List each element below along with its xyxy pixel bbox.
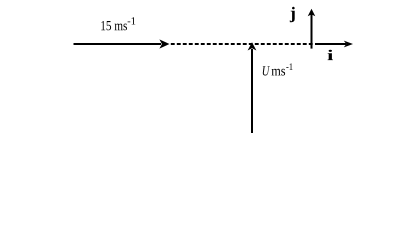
superscript "-1" of U ms label — [286, 63, 292, 70]
wire: vertical shaft of velocity vector U — [251, 49, 253, 133]
arrowhead of unit vector j — [308, 9, 316, 16]
value label "15 ms" — [101, 21, 127, 30]
axis label i (bold) — [328, 50, 333, 60]
value label "U ms" (U italic) — [263, 66, 270, 75]
superscript "-1" of 15 ms label — [128, 17, 136, 24]
wire: shaft of unit vector j (vertical axis) — [311, 14, 313, 49]
axis label j (bold) — [290, 7, 295, 22]
wire: shaft of unit vector i (horizontal axis) — [315, 43, 346, 45]
arrowhead of horizontal velocity vector — [159, 39, 169, 48]
arrowhead of unit vector i — [344, 41, 353, 48]
wire: solid shaft of horizontal velocity vector — [74, 43, 162, 45]
wire: dashed horizontal trajectory line — [171, 43, 313, 45]
arrowhead of vertical vector U — [248, 42, 257, 50]
